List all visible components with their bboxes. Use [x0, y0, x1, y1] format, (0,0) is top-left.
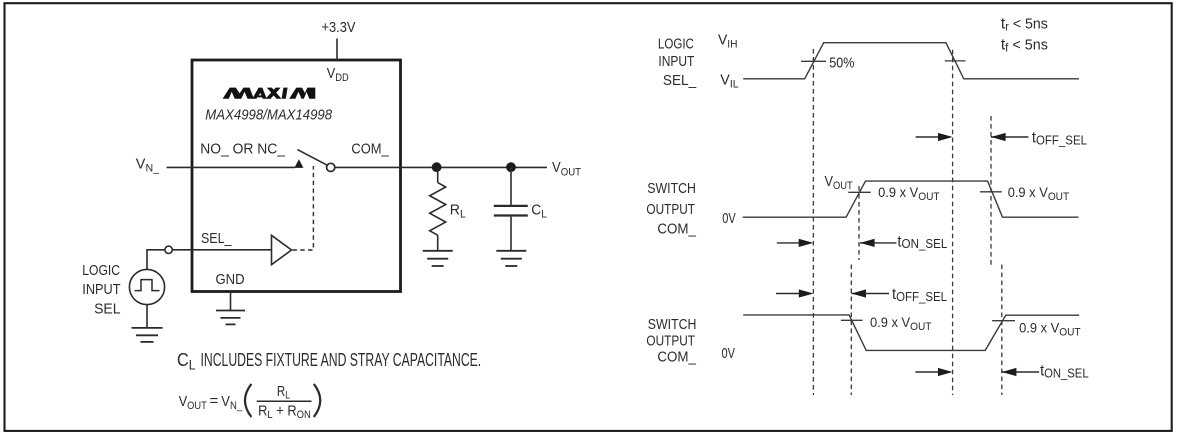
tick 90% rising row2	[848, 191, 870, 193]
formula fraction bar	[257, 400, 312, 402]
svg-text:GND: GND	[216, 271, 245, 288]
tick 90% rising row3	[992, 320, 1015, 322]
tick 90% falling row3	[841, 319, 863, 321]
resistor RL	[430, 167, 446, 250]
wire COM_ to VOUT	[335, 166, 547, 168]
formula VOUT equation	[179, 383, 321, 421]
svg-text:COM_: COM_	[657, 349, 696, 366]
wire +3.3V to VDD	[336, 39, 338, 61]
tON_SEL row3 right arrow	[915, 368, 952, 376]
waveform COM_ row2	[743, 181, 1079, 217]
dashed timing line D6 row3 rising 90%	[1001, 265, 1003, 396]
formula left parenthesis	[245, 384, 251, 417]
svg-text:tr < 5ns: tr < 5ns	[1001, 15, 1048, 33]
buffer driver triangle	[272, 235, 292, 264]
svg-text:SWITCH: SWITCH	[648, 316, 697, 333]
svg-text:INCLUDES FIXTURE AND STRAY CAP: INCLUDES FIXTURE AND STRAY CAPACITANCE.	[201, 350, 482, 370]
svg-text:OUTPUT: OUTPUT	[646, 333, 695, 350]
dashed control line buffer to switch	[293, 166, 314, 250]
svg-text:INPUT: INPUT	[658, 53, 694, 70]
svg-text:INPUT: INPUT	[82, 281, 120, 298]
dashed timing line D3 row2 rising 90%	[858, 186, 860, 260]
wire GND pin to ground	[230, 292, 232, 311]
dashed timing line D1 rising 50%	[812, 49, 814, 395]
svg-text:NO_ OR NC_: NO_ OR NC_	[200, 141, 285, 158]
tON_SEL row3 left arrow	[1002, 368, 1039, 376]
svg-text:SEL_: SEL_	[663, 72, 697, 89]
label SWITCH OUTPUT COM_ (row3)	[646, 316, 696, 366]
svg-text:50%: 50%	[829, 54, 854, 71]
wire SEL_ terminal to pulse source	[147, 250, 165, 270]
dashed timing line D4 row2 falling 90%	[990, 116, 992, 268]
tOFF_SEL row2 left arrow	[991, 133, 1028, 141]
svg-text:COM_: COM_	[657, 221, 696, 238]
svg-text:OUTPUT: OUTPUT	[646, 201, 695, 218]
source label LOGIC INPUT SEL	[82, 262, 120, 318]
pulse source circle	[129, 269, 164, 304]
IC U1 box MAX4998/MAX14998	[192, 60, 401, 292]
label SWITCH OUTPUT COM_ (row2)	[646, 180, 696, 238]
tick 50% falling row1	[945, 60, 966, 62]
switch S1 throw arrowhead	[294, 159, 303, 168]
svg-text:0V: 0V	[722, 210, 736, 227]
wire VN_ into box to switch	[167, 166, 296, 168]
capacitor CL	[494, 167, 528, 250]
svg-text:+3.3V: +3.3V	[322, 19, 356, 36]
wire SEL_ terminal to buffer	[172, 249, 271, 251]
ground under RL	[423, 251, 453, 266]
ground under CL	[496, 251, 526, 266]
svg-text:LOGIC: LOGIC	[82, 262, 120, 279]
waveform COM_ row3	[743, 315, 1079, 351]
svg-text:COM_: COM_	[351, 141, 389, 158]
tick 90% falling row2	[980, 191, 1002, 193]
wire pulse source to ground	[146, 305, 148, 328]
svg-text:LOGIC: LOGIC	[658, 36, 694, 53]
svg-text:SEL_: SEL_	[201, 230, 232, 247]
dashed timing line D2 falling 50%	[952, 50, 954, 395]
tOFF_SEL row2 right arrow	[916, 133, 953, 141]
tick 50% rising row1	[801, 60, 826, 62]
tON_SEL row2 left arrow	[860, 239, 896, 247]
junction node dot B	[506, 162, 516, 172]
pulse waveform symbol	[135, 280, 160, 291]
label LOGIC INPUT SEL_ (row1)	[658, 36, 697, 89]
formula right parenthesis	[314, 384, 320, 417]
junction node dot A	[432, 162, 442, 172]
svg-text:0V: 0V	[722, 345, 736, 362]
svg-text:SEL: SEL	[94, 300, 120, 317]
svg-text:SWITCH: SWITCH	[647, 180, 696, 197]
waveform SEL_ row1	[743, 43, 1079, 79]
ground under GND pin	[216, 311, 245, 325]
svg-text:=: =	[210, 392, 219, 409]
note CL includes fixture	[177, 350, 481, 373]
tOFF_SEL row3 right arrow	[776, 289, 813, 297]
tON_SEL row2 right arrow	[777, 239, 814, 247]
open terminal circle on SEL_	[165, 246, 172, 253]
MAXIM logo	[223, 88, 316, 99]
svg-text:MAX4998/MAX14998: MAX4998/MAX14998	[205, 106, 332, 123]
svg-text:tf < 5ns: tf < 5ns	[1001, 37, 1048, 55]
dashed timing line D5 row3 falling 90%	[850, 265, 852, 396]
switch S1 blade	[297, 150, 327, 166]
ground under pulse source	[132, 328, 163, 342]
tOFF_SEL row3 left arrow	[851, 289, 889, 297]
switch S1 pivot circle	[327, 163, 335, 171]
